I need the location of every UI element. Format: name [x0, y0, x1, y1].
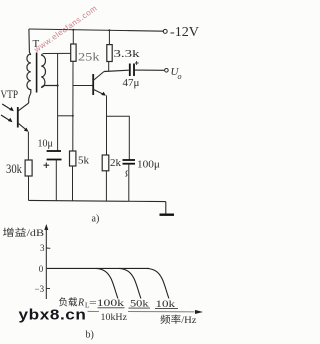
svg-text:b): b) — [86, 330, 94, 341]
wire 5k bottom lead — [72, 166, 74, 201]
svg-text:10kHz: 10kHz — [101, 313, 128, 323]
svg-text:47μ: 47μ — [123, 77, 140, 89]
wire secondary bottom lead — [41, 86, 57, 88]
wire VTP emitter vertical — [27, 132, 29, 160]
transformer core — [36, 53, 38, 93]
svg-text:增益/dB: 增益/dB — [3, 227, 45, 239]
wire secondary top lead — [41, 53, 71, 55]
svg-text:10k: 10k — [156, 300, 176, 310]
tick -3 — [46, 287, 50, 289]
wire left drop to transformer primary — [29, 29, 31, 55]
transformer secondary winding — [41, 55, 45, 87]
node junction 25k top — [72, 29, 74, 31]
terminal Uo — [165, 69, 169, 73]
wire cross link — [58, 115, 73, 117]
resistor 30k — [25, 160, 32, 176]
wire primary bottom to VTP collector — [29, 93, 31, 103]
svg-text:30k: 30k — [6, 162, 23, 176]
phototransistor VTP collector — [18, 103, 28, 111]
resistor 25k — [72, 30, 74, 44]
tick +3 — [46, 247, 50, 249]
svg-text:0: 0 — [39, 264, 44, 274]
capacitor 100u — [123, 159, 136, 161]
ground — [165, 202, 167, 214]
curve RL=100k — [96, 268, 118, 298]
curve RL=50k — [119, 268, 141, 298]
node junction 3.3k top — [108, 29, 110, 31]
svg-text:5k: 5k — [78, 155, 90, 167]
svg-text:频率/Hz: 频率/Hz — [160, 314, 197, 326]
wire collector node to capacitor — [104, 70, 129, 71]
transistor V1 collector — [93, 72, 104, 81]
svg-text:10μ: 10μ — [38, 139, 53, 150]
wire 2k bottom lead — [105, 171, 107, 201]
curve 0dB flat line — [47, 267, 149, 269]
wire 10u bottom lead — [55, 160, 57, 201]
transistor V1 base bar — [92, 74, 94, 95]
wire 3.3k bottom lead — [108, 62, 110, 72]
svg-text:100μ: 100μ — [137, 159, 160, 171]
wire capacitor to output — [135, 69, 165, 71]
svg-text:2k: 2k — [110, 157, 122, 169]
transformer primary winding — [27, 54, 31, 93]
resistor 3.3k — [108, 30, 110, 44]
wire 30k bottom lead — [28, 176, 30, 200]
wire emitter branch to 100u — [107, 116, 130, 159]
svg-text:o: o — [178, 72, 182, 81]
wire node A vertical to 10u cap — [57, 54, 59, 151]
capacitor 47u — [129, 64, 131, 77]
svg-text:VTP: VTP — [1, 89, 19, 101]
wire bottom rail — [29, 200, 166, 201]
resistor 5k — [70, 151, 76, 166]
phototransistor VTP emitter with arrow — [18, 123, 27, 131]
svg-text:a): a) — [92, 214, 100, 225]
wire base connection — [73, 85, 93, 87]
phototransistor VTP base bar — [17, 107, 19, 128]
svg-text:-12V: -12V — [170, 24, 199, 39]
svg-text:=100k: =100k — [89, 299, 124, 309]
wire 25k bottom lead — [72, 61, 74, 151]
chart x-axis — [98, 307, 125, 309]
terminal -12V — [163, 29, 167, 33]
svg-text:3: 3 — [40, 243, 45, 253]
svg-text:ybx8.cn: ybx8.cn — [19, 307, 87, 323]
svg-text:3.3k: 3.3k — [114, 48, 141, 60]
node junction cross link — [72, 115, 74, 117]
wire top supply rail — [29, 29, 164, 31]
wire 100u bottom lead — [128, 164, 130, 202]
svg-text:−3: −3 — [35, 284, 45, 294]
resistor 2k — [102, 155, 109, 171]
light arrow 2 — [1, 115, 11, 121]
chart y-axis — [45, 228, 47, 299]
transistor V1 emitter with arrow — [93, 89, 105, 95]
wire emitter vertical — [106, 95, 108, 155]
curve RL=10k — [147, 268, 169, 298]
svg-text:25k: 25k — [78, 52, 100, 64]
node junction secondary-bottom — [57, 84, 59, 86]
light arrow 1 — [2, 104, 12, 110]
svg-text:50k: 50k — [130, 300, 149, 310]
